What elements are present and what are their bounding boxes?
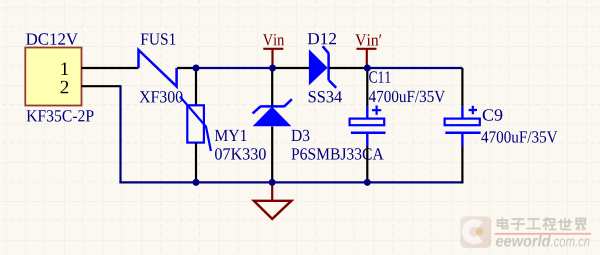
TVS diode D3 bottom lead — [271, 127, 273, 183]
capacitor C11 top pin — [366, 68, 368, 107]
schottky diode D12 bottom flag — [329, 80, 336, 88]
wire pin2 horizontal — [82, 85, 121, 87]
capacitor C9 top lead — [461, 107, 463, 118]
junction node GND rail — [269, 179, 276, 186]
diode designator D12 — [308, 33, 336, 44]
fuse value XF300 — [139, 91, 182, 103]
ground triangle — [254, 201, 292, 219]
TVS diode D3 right flag — [284, 99, 292, 106]
TVS diode D3 cathode bar — [260, 105, 284, 108]
diode value SS34 — [309, 91, 342, 103]
varistor designator MY1 — [215, 130, 247, 141]
varistor MY1 top lead — [195, 68, 197, 107]
capacitor C9 bottom lead — [461, 134, 463, 146]
TVS diode D3 left flag — [253, 106, 261, 113]
wire right vertical top — [461, 68, 463, 107]
capacitor C9 bottom plate — [445, 131, 480, 134]
capacitor value 4700uF/35V — [369, 91, 445, 103]
capacitor C9 plus — [469, 106, 477, 114]
connector value KF35C-2P — [27, 110, 94, 122]
TVS diode D3 triangle — [253, 107, 292, 127]
varistor MY1 body — [187, 105, 204, 142]
TVS diode D3 top lead — [271, 68, 273, 107]
varistor value 07K330 — [215, 148, 266, 160]
wire D12 to node Vin' — [329, 67, 367, 69]
watermark eeworld text — [496, 235, 551, 247]
schottky diode D12 cathode bar — [327, 53, 330, 80]
connector designator DC12V — [26, 33, 78, 45]
junction node Vin — [269, 65, 276, 72]
power port Vin' bar — [357, 48, 377, 50]
capacitor designator C9 — [483, 109, 503, 121]
junction node A — [193, 65, 200, 72]
ground stem — [271, 182, 273, 200]
fuse designator FUS1 — [141, 33, 176, 45]
wire node A to node Vin — [196, 67, 273, 69]
TVS designator D3 — [291, 130, 309, 142]
capacitor C11 bottom pin — [366, 146, 368, 182]
capacitor C11 bottom lead — [366, 134, 368, 146]
capacitor designator C11 — [369, 71, 390, 83]
fuse FUS1 — [139, 50, 177, 87]
capacitor C9 top plate — [445, 119, 480, 126]
power port Vin label — [263, 34, 284, 46]
capacitor C9 bottom pin — [461, 146, 463, 183]
varistor MY1 diagonal — [180, 97, 211, 151]
watermark chinese text — [498, 218, 586, 230]
power port Vin stem — [271, 49, 273, 68]
pin number 2 — [61, 81, 69, 94]
watermark com.cn text — [551, 238, 590, 246]
wire fuse to node A — [177, 67, 196, 69]
wire bottom rail — [119, 181, 463, 183]
capacitor C11 bottom plate — [351, 131, 386, 134]
capacitor C11 plus — [372, 106, 381, 115]
wire node Vin to D12 — [273, 67, 310, 69]
junction node C11 bottom — [364, 179, 371, 186]
power port Vin' label — [355, 34, 381, 46]
junction node A bottom — [193, 179, 200, 186]
power port Vin' stem — [366, 49, 368, 68]
varistor MY1 bottom lead — [195, 143, 197, 183]
schottky diode D12 triangle — [309, 49, 328, 85]
TVS value P6SMBJ33CA — [291, 148, 383, 160]
wire node Vin' to right corner — [367, 67, 462, 69]
watermark red line — [495, 233, 591, 235]
pin number 1 — [61, 63, 68, 76]
schottky diode D12 top flag — [323, 46, 329, 53]
capacitor value 4700uF/35V — [481, 131, 557, 143]
wire pin1 to fuse — [82, 67, 139, 69]
junction node Vin' — [364, 65, 371, 72]
watermark logo icon — [460, 216, 491, 248]
power port Vin bar — [263, 48, 283, 50]
capacitor C11 top plate — [350, 119, 385, 126]
capacitor C11 top lead — [366, 107, 368, 118]
connector J DC12V body — [25, 48, 81, 106]
wire left vertical — [119, 85, 121, 182]
